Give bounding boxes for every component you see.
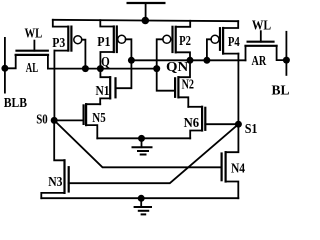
wire P3 gate to Q xyxy=(82,40,86,69)
wire P4 drain to S1 xyxy=(237,54,239,125)
wire N2 source stub xyxy=(178,97,188,107)
node QN junction P2/N2 drains xyxy=(187,57,194,64)
svg-text:BL: BL xyxy=(272,83,290,98)
N1 channel xyxy=(109,77,111,98)
node Q junction P1/N1 drains xyxy=(97,65,104,72)
wire P2 drain stub xyxy=(176,52,190,60)
P3 channel xyxy=(67,27,69,51)
wire P1 source drop xyxy=(100,20,114,26)
svg-text:P4: P4 xyxy=(228,34,240,49)
transistor N3 xyxy=(41,120,68,198)
wire S0 to N4 gate (diagonal) xyxy=(54,120,221,167)
node mid ground junction xyxy=(138,135,145,142)
wire AR gate stub to WL xyxy=(260,31,262,42)
svg-text:N4: N4 xyxy=(231,160,245,175)
N4 channel xyxy=(225,152,227,181)
wire N3 source xyxy=(41,193,64,198)
transistor AR access xyxy=(246,31,287,60)
wire VDD stem xyxy=(145,3,147,21)
N5 gate line xyxy=(82,105,84,124)
svg-text:Q: Q xyxy=(101,55,110,70)
P4 gate line xyxy=(219,28,221,50)
transistor N4 xyxy=(222,124,239,198)
svg-text:S1: S1 xyxy=(245,121,258,136)
N3 channel xyxy=(63,160,65,193)
N2 channel xyxy=(177,77,179,97)
wire P2 gate to Q xyxy=(157,39,163,68)
P3 gate line xyxy=(70,27,72,51)
svg-text:N3: N3 xyxy=(48,174,62,189)
VDD supply bar xyxy=(128,2,165,4)
wire S1 to N3 gate (diagonal) xyxy=(69,124,239,183)
svg-text:P2: P2 xyxy=(179,33,191,48)
AR channel xyxy=(246,45,277,47)
svg-text:N1: N1 xyxy=(96,83,110,98)
svg-text:S0: S0 xyxy=(36,111,48,126)
transistor N5 xyxy=(54,104,100,138)
P2 channel xyxy=(175,27,177,53)
wire N5 source xyxy=(86,125,97,138)
node BLB junction xyxy=(1,65,8,72)
wire BLB bitline xyxy=(4,38,6,93)
svg-text:N2: N2 xyxy=(182,77,195,92)
transistor N6 xyxy=(188,107,238,139)
wire N5/N6 common source line xyxy=(97,137,190,139)
N6 gate line xyxy=(204,108,206,130)
wire P4 drain stub xyxy=(223,53,238,55)
P2 gate line xyxy=(171,27,173,52)
P1 gate bubble xyxy=(118,35,126,43)
wire P1 drain stub xyxy=(100,52,113,69)
wire N4 drain xyxy=(226,124,239,152)
svg-text:P3: P3 xyxy=(52,35,65,50)
wire N6 source xyxy=(190,131,202,139)
P3 gate bubble xyxy=(74,36,82,44)
node S0 junction xyxy=(51,117,58,124)
transistor N1 xyxy=(100,60,131,104)
N2 gate line xyxy=(174,78,176,97)
transistor P3 xyxy=(53,20,86,69)
wire N5 drain stub xyxy=(86,103,100,105)
wire P3 source drop xyxy=(53,20,69,27)
wire N2 drain xyxy=(178,60,190,77)
AL channel xyxy=(16,54,48,56)
wire N1 source stub xyxy=(100,98,110,104)
wire VDD rail xyxy=(53,20,238,21)
wire N3 drain xyxy=(54,120,64,160)
wire P4 source drop xyxy=(223,21,238,28)
transistor AL access xyxy=(5,41,48,69)
wire N1 gate to QN xyxy=(116,60,132,88)
wire N2 gate to Q xyxy=(157,69,175,91)
transistor P4 xyxy=(207,21,239,60)
svg-text:N5: N5 xyxy=(92,110,106,125)
ground (bottom) xyxy=(135,198,151,214)
wire BL bitline xyxy=(285,32,287,75)
wire P2 source drop xyxy=(176,21,191,27)
wire bottom ground rail xyxy=(41,197,238,199)
wire N5 gate to S0 xyxy=(54,119,83,121)
wire node QN row xyxy=(131,59,245,61)
N5 channel xyxy=(85,104,87,125)
wire P3 drain stub xyxy=(54,50,68,52)
P4 channel xyxy=(222,28,224,54)
N1 gate line xyxy=(114,78,116,97)
node bottom ground junction xyxy=(138,195,145,202)
node QN junction P1/N1 gate tap xyxy=(128,57,135,64)
N6 channel xyxy=(201,107,203,131)
N3 gate line xyxy=(68,167,70,191)
wire P3 drain to S0 xyxy=(53,51,55,121)
wire P4 gate to QN xyxy=(207,39,211,60)
svg-text:P1: P1 xyxy=(97,34,110,49)
wire AL gate stub to WL xyxy=(33,41,35,51)
node Q junction P2/N2 gate tap xyxy=(153,65,160,72)
AL gate bar xyxy=(17,50,48,52)
svg-text:WL: WL xyxy=(252,18,271,33)
N4 gate line xyxy=(221,154,223,181)
svg-text:QN: QN xyxy=(166,59,188,74)
node S1 junction xyxy=(235,121,242,128)
wire N6 drain stub xyxy=(188,106,202,108)
node QN junction P4 gate tap xyxy=(203,57,210,64)
P4 gate bubble xyxy=(211,35,219,43)
svg-text:AL: AL xyxy=(26,60,38,75)
svg-text:BLB: BLB xyxy=(4,95,27,110)
transistor P1 xyxy=(100,20,131,68)
wire AR left leg xyxy=(245,46,247,61)
node Q junction P3 gate tap xyxy=(82,65,89,72)
svg-text:AR: AR xyxy=(252,53,267,68)
ground (middle) xyxy=(133,138,152,154)
AR gate bar xyxy=(248,41,274,43)
P1 gate line xyxy=(116,27,118,53)
P1 channel xyxy=(113,27,115,53)
P2 gate bubble xyxy=(163,35,171,43)
node BL junction xyxy=(283,57,290,64)
transistor P2 xyxy=(157,21,191,69)
wire AL left leg xyxy=(5,55,16,68)
node VDD junction xyxy=(142,17,150,25)
wire N1 drain xyxy=(100,69,110,78)
svg-text:WL: WL xyxy=(25,25,43,40)
wire N4 source xyxy=(226,182,239,199)
wire node Q row xyxy=(48,68,157,70)
svg-text:N6: N6 xyxy=(184,115,200,130)
wire AR right leg xyxy=(277,46,287,60)
wire AL right leg xyxy=(47,55,49,69)
wire P1 gate to QN xyxy=(126,39,132,60)
transistor N2 xyxy=(157,60,190,107)
wire N6 gate to S1 xyxy=(205,123,238,125)
